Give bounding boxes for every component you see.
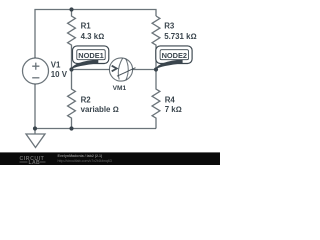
watermark credit text xyxy=(58,154,112,163)
svg-text:10 V: 10 V xyxy=(51,70,68,79)
voltage source V1 xyxy=(23,58,49,84)
svg-text:R2: R2 xyxy=(81,95,92,104)
svg-text:7 kΩ: 7 kΩ xyxy=(165,105,182,114)
svg-text:5.731 kΩ: 5.731 kΩ xyxy=(164,32,196,41)
wire top rail xyxy=(35,10,156,59)
svg-text:NODE2: NODE2 xyxy=(162,51,187,60)
svg-text:VM1: VM1 xyxy=(113,85,127,92)
wire voltmeter to node2 xyxy=(132,69,156,71)
junction top of R1 xyxy=(69,7,73,11)
junction node B (node2) xyxy=(154,67,158,71)
junction bottom of R2 xyxy=(69,126,73,130)
wire left branch lower xyxy=(34,84,36,129)
junction ground xyxy=(33,126,37,130)
svg-text:EvelynMadonia / lab2 (2.1): EvelynMadonia / lab2 (2.1) xyxy=(58,154,104,158)
resistor R1 xyxy=(68,10,76,49)
svg-text:R3: R3 xyxy=(164,21,175,30)
svg-text:V1: V1 xyxy=(51,60,61,69)
V1 plus sign xyxy=(32,63,39,70)
wire R3 to node2 xyxy=(155,48,157,70)
voltmeter dial arcs xyxy=(118,58,128,80)
voltmeter VM1 circle xyxy=(109,58,132,81)
svg-text:R1: R1 xyxy=(81,22,92,31)
watermark logo line xyxy=(20,161,46,163)
svg-text:R4: R4 xyxy=(165,95,176,104)
resistor R2 xyxy=(68,70,76,129)
wire R1 to node1 xyxy=(71,48,73,70)
svg-text:4.3 kΩ: 4.3 kΩ xyxy=(81,32,105,41)
junction node A (node1) xyxy=(69,67,73,71)
voltmeter plus mark xyxy=(112,66,117,72)
svg-text:LAB: LAB xyxy=(29,160,41,165)
node flag NODE1 xyxy=(71,46,109,69)
svg-text:NODE1: NODE1 xyxy=(78,51,103,60)
resistor R4 xyxy=(152,70,160,129)
voltmeter needle xyxy=(117,68,136,77)
svg-text:http://circuitlab.com/c7x2t4kb: http://circuitlab.com/c7x2t4kbnq63 xyxy=(58,159,112,163)
watermark bar xyxy=(0,152,220,165)
V1 minus sign xyxy=(32,77,39,79)
wire bottom rail xyxy=(35,128,156,130)
svg-text:variable Ω: variable Ω xyxy=(81,105,119,114)
watermark logo CircuitLab xyxy=(20,156,45,166)
wire node1 to voltmeter xyxy=(72,69,110,71)
node flag NODE2 xyxy=(155,46,192,69)
ground xyxy=(26,129,45,148)
resistor R3 xyxy=(152,16,160,48)
